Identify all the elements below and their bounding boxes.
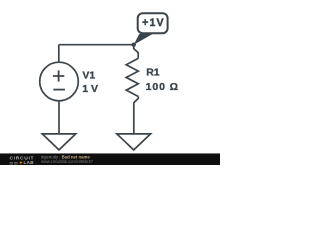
wire V1 bottom lead	[58, 101, 60, 134]
wire V1 top lead	[58, 45, 60, 63]
watermark logo dashes	[10, 163, 18, 164]
wire top horizontal (net +1V)	[59, 44, 134, 46]
svg-text:www.circuitlab.com/c/96br47: www.circuitlab.com/c/96br47	[41, 159, 94, 164]
ground (right)	[117, 134, 151, 150]
svg-text:LAB: LAB	[24, 160, 35, 165]
svg-text:V1: V1	[82, 70, 95, 82]
node junction dot	[132, 43, 136, 47]
voltage source V1	[40, 62, 79, 101]
wire R1 bottom lead with jog	[134, 97, 139, 134]
net flag tail	[134, 34, 153, 45]
V1 plus sign	[53, 70, 64, 81]
svg-text:1 V: 1 V	[82, 83, 98, 95]
net flag +1V box	[138, 13, 168, 33]
resistor R1	[126, 58, 138, 96]
wire R1 top lead with jog	[134, 45, 139, 59]
svg-text:100 Ω: 100 Ω	[146, 81, 179, 93]
svg-text:R1: R1	[146, 67, 160, 79]
watermark bar	[0, 153, 220, 165]
ground (left)	[42, 134, 75, 150]
svg-text:+1V: +1V	[142, 17, 164, 29]
V1 minus sign	[53, 89, 65, 91]
watermark logo bolt	[19, 161, 22, 166]
